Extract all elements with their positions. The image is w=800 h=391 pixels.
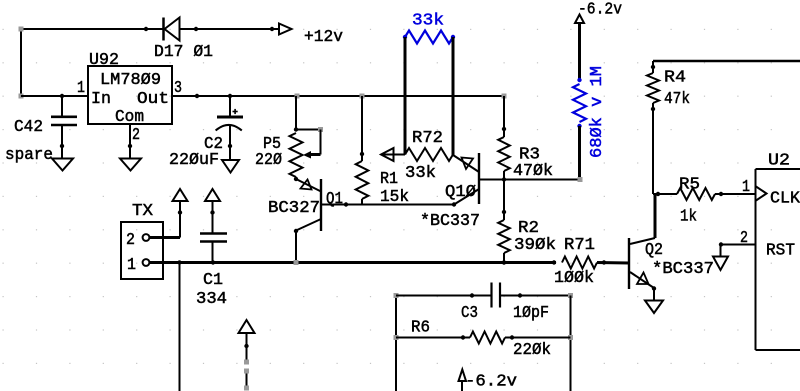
svg-text:39Øk: 39Øk bbox=[514, 235, 556, 254]
svg-text:1: 1 bbox=[742, 177, 750, 196]
svg-text:R4: R4 bbox=[664, 68, 686, 87]
svg-text:BC327: BC327 bbox=[268, 198, 320, 217]
svg-text:68Øk v 1M: 68Øk v 1M bbox=[587, 66, 606, 158]
svg-text:C3: C3 bbox=[461, 303, 478, 322]
svg-text:47Øk: 47Øk bbox=[513, 161, 553, 180]
svg-text:-6.2v: -6.2v bbox=[578, 0, 622, 19]
svg-text:RST: RST bbox=[766, 241, 795, 260]
svg-text:1ØpF: 1ØpF bbox=[513, 303, 549, 322]
svg-text:TX: TX bbox=[132, 201, 153, 220]
svg-text:22Ø: 22Ø bbox=[255, 150, 282, 169]
svg-text:47k: 47k bbox=[664, 89, 690, 108]
svg-text:33k: 33k bbox=[412, 11, 444, 30]
svg-text:2: 2 bbox=[740, 228, 748, 247]
svg-text:Q1: Q1 bbox=[326, 189, 343, 208]
svg-text:CLK: CLK bbox=[770, 189, 800, 208]
svg-text:1: 1 bbox=[77, 78, 85, 97]
svg-text:3: 3 bbox=[174, 78, 182, 97]
svg-text:2: 2 bbox=[126, 230, 135, 249]
svg-text:U2: U2 bbox=[768, 151, 790, 170]
svg-text:22Øk: 22Øk bbox=[513, 340, 551, 359]
svg-text:Q1Ø: Q1Ø bbox=[445, 182, 476, 201]
svg-text:R72: R72 bbox=[412, 128, 443, 147]
svg-text:Out: Out bbox=[137, 89, 169, 108]
svg-text:Q2: Q2 bbox=[645, 240, 663, 259]
svg-text:U92: U92 bbox=[89, 50, 119, 69]
svg-text:22ØuF: 22ØuF bbox=[169, 150, 219, 169]
svg-text:LM78Ø9: LM78Ø9 bbox=[100, 70, 161, 89]
svg-text:Com: Com bbox=[115, 107, 144, 126]
svg-text:*BC337: *BC337 bbox=[652, 259, 714, 278]
svg-text:D17 Ø1: D17 Ø1 bbox=[154, 42, 213, 61]
svg-text:*BC337: *BC337 bbox=[420, 211, 480, 230]
svg-text:R1: R1 bbox=[380, 169, 398, 188]
svg-text:In: In bbox=[91, 89, 111, 108]
svg-text:C1: C1 bbox=[203, 270, 223, 289]
svg-text:1k: 1k bbox=[680, 207, 697, 226]
svg-text:C42: C42 bbox=[14, 117, 43, 136]
svg-text:R6: R6 bbox=[411, 318, 430, 337]
svg-text:1ØØk: 1ØØk bbox=[554, 268, 594, 287]
svg-text:R71: R71 bbox=[564, 235, 595, 254]
svg-text:334: 334 bbox=[196, 289, 227, 308]
svg-text:R5: R5 bbox=[679, 175, 700, 194]
svg-text:+12v: +12v bbox=[304, 27, 343, 46]
svg-text:1: 1 bbox=[127, 255, 136, 274]
svg-text:-6.2v: -6.2v bbox=[465, 372, 517, 391]
svg-text:2: 2 bbox=[132, 125, 140, 144]
svg-text:33k: 33k bbox=[405, 163, 436, 182]
svg-text:spare: spare bbox=[5, 145, 53, 164]
svg-text:15k: 15k bbox=[380, 187, 409, 206]
